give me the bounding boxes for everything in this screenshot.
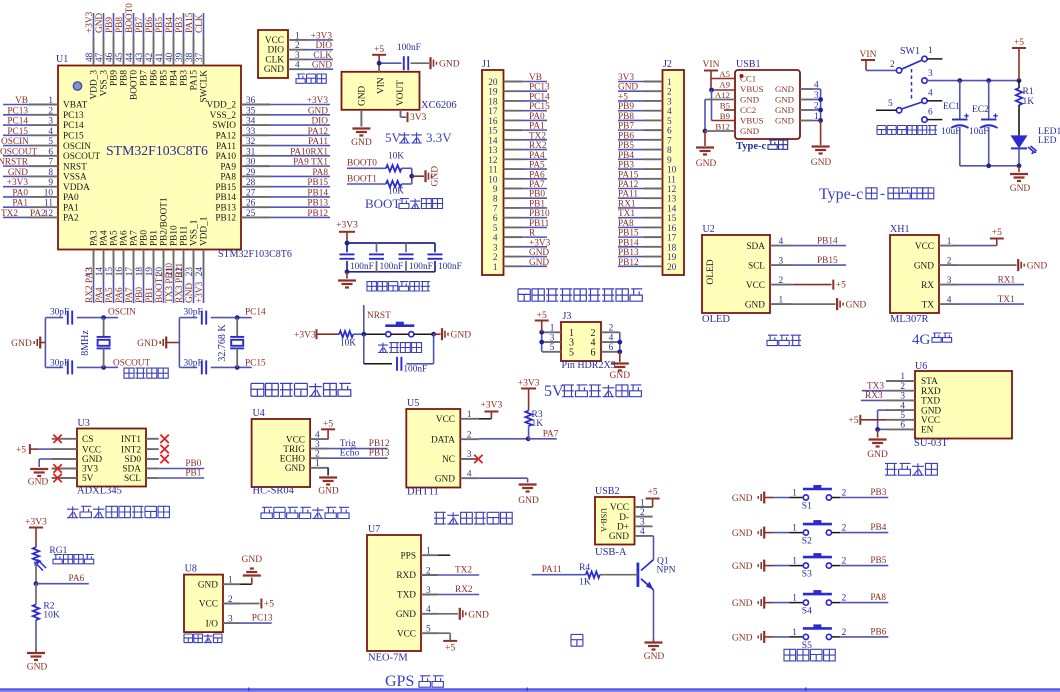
U1 pin 21 PB10 [173,250,175,280]
svg-text:PB15: PB15 [817,256,838,266]
svg-text:SW1: SW1 [900,46,920,57]
svg-text:25: 25 [246,209,256,219]
svg-text:10: 10 [44,188,54,198]
svg-text:PB0: PB0 [185,459,201,469]
svg-text:PA7: PA7 [125,287,135,303]
svg-text:11: 11 [489,166,498,176]
wire LED to gnd rail [1018,148,1020,165]
svg-text:6: 6 [609,343,614,353]
svg-text:3: 3 [493,243,498,253]
svg-text:100nF: 100nF [403,365,427,375]
svg-text:VCC: VCC [915,242,934,252]
svg-text:VSS_2: VSS_2 [210,111,237,121]
svg-text:VCC: VCC [746,281,765,291]
U1 pin 36 VDD_2 [241,104,270,106]
svg-text:16: 16 [115,267,125,277]
ground bar XH1 [958,264,1017,266]
svg-text:GND: GND [610,371,631,381]
ground U6 [869,438,887,440]
svg-text:6: 6 [48,147,53,157]
U1 pin 6 OSCOUT [29,155,58,157]
svg-text:+5: +5 [848,416,858,426]
svg-text:PA4: PA4 [529,151,545,161]
resistor R_boot0 10K [386,165,402,171]
svg-text:3: 3 [779,256,784,266]
wire EN junction [878,428,887,430]
svg-text:+5: +5 [445,644,455,654]
svg-text:ADXL345: ADXL345 [77,486,122,497]
svg-text:VBUS: VBUS [740,116,764,126]
svg-text:GND: GND [740,126,759,136]
svg-text:Type-c: Type-c [736,141,766,152]
svg-text:1: 1 [928,46,933,56]
svg-text:27: 27 [246,188,256,198]
svg-text:EC1: EC1 [943,102,960,112]
svg-text:PB9: PB9 [110,70,120,86]
svg-text:USB1: USB1 [736,59,760,70]
no connect NC [460,458,478,460]
svg-text:J2: J2 [663,59,672,70]
wire RG1 to node [35,563,37,584]
svg-text:PB1: PB1 [150,230,160,246]
svg-text:PB15: PB15 [307,178,328,188]
svg-text:+5: +5 [323,420,333,430]
J2 pin 4 [644,110,663,112]
J2 pin 10 [644,168,663,170]
svg-text:PB5: PB5 [618,141,634,151]
wire DATA to PA7 [479,438,528,440]
diode LED1 [1011,135,1028,148]
U1 pin 14 PA4 [103,250,105,280]
svg-text:RX2: RX2 [455,585,473,595]
svg-text:PB11: PB11 [529,219,550,229]
svg-text:3: 3 [295,51,300,61]
svg-text:3: 3 [667,97,672,107]
wire EC bottom rail [960,165,1019,167]
svg-text:+3V3: +3V3 [85,11,95,33]
module U6 SU-03T [915,371,1012,439]
svg-text:PB0: PB0 [135,287,145,303]
svg-text:5V: 5V [544,383,564,400]
wire RXD to TX2 [438,574,479,576]
J2 pin 18 [644,246,663,248]
svg-text:18: 18 [135,267,145,277]
download port pin 1 [288,39,307,41]
J1 pin 2 [504,256,523,258]
svg-text:PB15: PB15 [215,183,236,193]
svg-text:8: 8 [48,168,53,178]
USB1 right pins 4..1 [800,88,813,90]
svg-text:VDD_1: VDD_1 [200,216,210,246]
caption MCU minimum system [251,383,351,396]
svg-text:4: 4 [947,295,952,305]
photoresistor RG1 [33,547,39,563]
svg-text:ECHO: ECHO [280,454,306,464]
caption ultrasonic module [261,507,349,518]
svg-text:PA8: PA8 [870,593,886,603]
power +5 U7 below [438,632,450,634]
svg-text:GND: GND [921,406,941,416]
svg-text:U6: U6 [915,361,927,372]
U1 pin 41 PB5 [163,37,165,66]
svg-text:GND: GND [696,159,717,169]
svg-text:30pF: 30pF [184,358,203,368]
svg-text:A9: A9 [719,80,730,90]
svg-text:5: 5 [550,343,555,353]
svg-text:31: 31 [246,147,256,157]
svg-text:10uF: 10uF [941,127,961,137]
svg-text:STA: STA [921,377,938,387]
svg-text:RX2: RX2 [529,141,547,151]
svg-text:PB9: PB9 [105,17,115,33]
svg-text:10K: 10K [340,339,356,349]
svg-text:7: 7 [493,204,498,214]
ground U8 inverted [243,574,261,576]
wire J3 to ground [619,352,621,362]
ground U3 [30,468,48,470]
svg-text:PB8: PB8 [618,112,634,122]
caption reset circuit [378,343,422,353]
ground filter caps [338,279,356,281]
wire U8 GND up [240,583,252,585]
connector USB2 USB-A [595,497,635,545]
svg-text:6: 6 [591,347,596,358]
J2 pin 9 [644,158,663,160]
svg-text:PB12: PB12 [618,258,639,268]
svg-text:7: 7 [48,158,53,168]
wire GND pin XC6206 [360,110,362,127]
svg-text:PB14: PB14 [817,237,838,247]
svg-text:Pin HDR2X3: Pin HDR2X3 [562,360,616,371]
svg-text:GND: GND [732,494,753,504]
module U7 NEO-7M GPS [367,535,421,651]
svg-text:SWCLK: SWCLK [200,70,210,103]
svg-text:PB14: PB14 [618,238,639,248]
svg-text:GND: GND [185,283,195,303]
U1 pin 29 PA8 [241,175,270,177]
svg-text:GND: GND [618,83,638,93]
U1 pin 5 OSCIN [29,145,58,147]
svg-text:3: 3 [48,117,53,127]
svg-text:PA4: PA4 [95,287,105,303]
svg-text:DATA: DATA [431,435,455,445]
svg-text:32.768 K: 32.768 K [217,324,228,362]
J1 pin 8 [504,197,523,199]
svg-text:4: 4 [928,89,933,99]
svg-text:1: 1 [315,459,320,469]
svg-text:PA8: PA8 [220,173,236,183]
svg-text:2: 2 [640,508,645,518]
svg-text:PC13: PC13 [252,614,273,624]
svg-text:VCC: VCC [265,36,284,46]
U1 pin 32 PA11 [241,145,270,147]
svg-text:GND: GND [264,65,284,75]
svg-text:14: 14 [95,267,105,277]
svg-text:NEO-7M: NEO-7M [368,653,408,664]
svg-text:20: 20 [488,78,498,88]
svg-text:RX3: RX3 [865,391,883,401]
caption blue-white latching switch [877,126,937,135]
svg-text:PB8: PB8 [115,17,125,33]
U1 pin 7 NRST [29,165,58,167]
svg-text:PA10RX1: PA10RX1 [290,147,328,157]
svg-text:1: 1 [426,547,431,557]
svg-text:12: 12 [488,156,498,166]
svg-text:1K: 1K [579,578,591,588]
svg-text:PB9: PB9 [618,102,634,112]
svg-text:VDD_2: VDD_2 [207,101,237,111]
U1 pin 23 VSS_1 [193,250,195,280]
svg-text:PA15: PA15 [185,12,195,33]
svg-text:S4: S4 [802,607,812,617]
U1 pin 30 PA9 [241,165,270,167]
U1 pin 8 VSSA [29,175,58,177]
wire USB1 right trunk [813,88,821,90]
svg-text:GND: GND [396,610,416,620]
ground bar at 100nF [429,57,431,69]
svg-text:1: 1 [550,324,555,334]
svg-text:GND: GND [529,248,549,258]
svg-text:USB2: USB2 [595,486,619,497]
svg-text:VCC: VCC [199,600,218,610]
IC U1 STM32F103C8T6 [58,66,241,250]
svg-text:30pF: 30pF [50,308,69,318]
no connect 5V [53,474,61,482]
svg-text:GND: GND [28,478,49,488]
U1 pin 45 PB8 [123,37,125,66]
ground bar crystal1 [39,337,41,349]
svg-text:CLK: CLK [313,51,332,61]
svg-text:OSCOUT: OSCOUT [63,152,101,162]
svg-text:GND: GND [775,84,794,94]
connector J3 Pin HDR2X3 [561,322,601,361]
crystal circuit Y1 8MHz [44,318,46,368]
svg-text:A12: A12 [715,90,730,100]
svg-text:30: 30 [246,158,256,168]
svg-text:2: 2 [947,256,952,266]
svg-text:PB5: PB5 [870,556,886,566]
svg-text:OLED: OLED [702,314,730,325]
svg-text:DIO: DIO [267,46,284,56]
svg-text:4G: 4G [912,332,931,348]
svg-text:4: 4 [609,333,614,343]
svg-text:PA5: PA5 [529,161,545,171]
svg-text:TX3: TX3 [867,382,884,392]
wire BOOT0 [347,167,386,169]
svg-text:CLK: CLK [195,14,205,33]
svg-text:+3V3: +3V3 [518,379,540,389]
wire SDA to PB0 [159,468,205,470]
U1 pin 43 PB7 [143,37,145,66]
power 3V3 [407,112,409,122]
power +5 [372,54,386,56]
svg-text:PA11: PA11 [618,190,638,200]
wire TXD to RX3 [861,399,886,401]
sensor U3 ADXL345 [77,429,146,487]
ground LED rail [1010,173,1028,175]
svg-text:1: 1 [295,31,300,41]
svg-text:GND: GND [1010,184,1031,194]
svg-text:INT2: INT2 [121,445,141,455]
svg-text:GND: GND [242,555,263,565]
svg-text:2: 2 [609,324,614,334]
svg-text:PB12: PB12 [215,214,236,224]
svg-text:GPS: GPS [385,673,414,690]
svg-text:PB14: PB14 [307,188,328,198]
svg-text:BOOT1: BOOT1 [347,174,377,184]
svg-text:PA1: PA1 [63,203,79,213]
svg-text:12: 12 [667,185,677,195]
wire filter top rail [347,242,435,244]
svg-text:GND: GND [644,652,665,662]
svg-text:19: 19 [488,88,498,98]
svg-text:5: 5 [667,117,672,127]
svg-text:23: 23 [185,267,195,277]
J1 pin 13 [504,149,523,151]
wire USB2 GND to Q1 collector [652,535,655,537]
svg-text:U3: U3 [78,418,90,429]
svg-text:PB7: PB7 [618,122,634,132]
svg-text:3: 3 [947,276,952,286]
connector P1 download port [258,30,288,78]
svg-text:1: 1 [467,410,472,420]
ground U4 [319,476,337,478]
caption vibration motor [184,634,222,643]
svg-text:RX3 PB11: RX3 PB11 [175,262,185,303]
svg-text:BOOT0: BOOT0 [125,3,135,33]
svg-text:STM32F103C8T6: STM32F103C8T6 [106,143,208,158]
svg-text:PB13: PB13 [307,199,328,209]
svg-text:10K: 10K [388,152,404,162]
J2 pin 12 [644,187,663,189]
svg-text:20: 20 [667,263,677,273]
U1 pin 26 PB13 [241,206,270,208]
svg-text:PB3: PB3 [175,17,185,33]
svg-text:PB13: PB13 [369,449,390,459]
svg-text:VBUS: VBUS [740,84,764,94]
svg-text:PA3: PA3 [90,230,100,246]
J1 pin 3 [504,246,523,248]
svg-text:PB3: PB3 [180,70,190,86]
svg-text:PB3: PB3 [618,161,634,171]
svg-text:CLK: CLK [265,55,284,65]
svg-text:NRSTR: NRSTR [0,158,29,168]
svg-text:PC14: PC14 [7,117,28,127]
capacitor C4 100nF [434,243,436,252]
caption photoresistor [53,555,94,564]
U1 pin 13 PA3 [93,250,95,280]
resistor R2 10K [35,584,37,605]
svg-text:+5: +5 [618,92,628,102]
wire GND pins left [705,99,735,101]
svg-text:GND: GND [439,60,460,70]
svg-text:INT1: INT1 [121,435,141,445]
svg-text:SCL: SCL [124,474,141,484]
svg-text:GND: GND [914,261,934,271]
svg-text:PA6: PA6 [120,230,130,246]
svg-text:OSCOUT: OSCOUT [113,358,151,368]
svg-text:GND: GND [740,95,759,105]
svg-text:5: 5 [48,137,53,147]
svg-text:PB11: PB11 [180,225,190,246]
J1 pin 7 [504,207,523,209]
svg-text:1: 1 [48,96,53,106]
svg-text:+3V3: +3V3 [195,281,205,303]
wire U5 GND [479,477,528,479]
svg-text:PB6: PB6 [150,70,160,86]
power +5 U4 [327,429,329,439]
J1 pin 9 [504,187,523,189]
svg-text:2: 2 [890,60,895,70]
resistor R_boot1 10K [386,181,402,187]
wire U3 GND [39,458,52,460]
svg-text:30pF: 30pF [184,308,203,318]
J2 pin 14 [644,207,663,209]
ground Q1 [645,641,663,643]
svg-text:Echo: Echo [340,449,360,459]
svg-text:1: 1 [640,498,645,508]
svg-text:PB1: PB1 [145,287,155,303]
svg-text:XC6206: XC6206 [421,100,457,111]
wire node to PA6 [36,583,89,585]
svg-text:VSS_3: VSS_3 [100,70,110,97]
ground bar crystal2 [165,337,167,349]
svg-text:PC13: PC13 [529,83,550,93]
svg-text:3V3: 3V3 [82,465,98,475]
svg-text:TX2: TX2 [455,566,472,576]
connector J2 [663,70,685,275]
svg-text:2: 2 [467,431,472,441]
svg-text:GND: GND [775,95,794,105]
ground [352,127,370,129]
svg-text:VIN: VIN [376,77,386,94]
svg-text:3V3: 3V3 [618,73,634,83]
svg-text:USB-A: USB-A [595,547,627,558]
svg-text:2: 2 [667,88,672,98]
ground U5 [519,483,537,485]
no connect SD0 [160,455,168,463]
svg-text:D+: D+ [617,523,629,533]
svg-text:PB0: PB0 [140,230,150,246]
svg-text:11: 11 [44,199,53,209]
J1 pin 17 [504,110,523,112]
wire filter bottom rail [347,271,435,273]
svg-text:100nF: 100nF [397,43,421,53]
svg-text:39: 39 [175,52,185,62]
svg-text:PB13: PB13 [618,248,639,258]
wire I/O to PC13 [240,622,272,624]
svg-text:PB12: PB12 [307,209,328,219]
wire TRIG [329,448,388,450]
svg-text:+3V3: +3V3 [311,31,333,41]
svg-text:GND: GND [732,599,753,609]
svg-text:5: 5 [888,99,893,109]
svg-text:TX1: TX1 [998,295,1015,305]
svg-text:100nF: 100nF [350,262,374,272]
power +5 OLED [793,284,832,286]
svg-text:100nF: 100nF [438,262,462,272]
svg-text:9: 9 [493,185,498,195]
J2 pin 15 [644,217,663,219]
svg-text:4: 4 [900,401,905,411]
wire VIN to SW1 pin2 [866,69,896,71]
svg-text:PB7: PB7 [140,70,150,86]
wire Q1 emitter to gnd [653,590,655,639]
U1 pin 39 PB3 [183,37,185,66]
svg-text:GND: GND [318,487,339,497]
svg-text:34: 34 [246,117,256,127]
J2 pin 13 [644,197,663,199]
